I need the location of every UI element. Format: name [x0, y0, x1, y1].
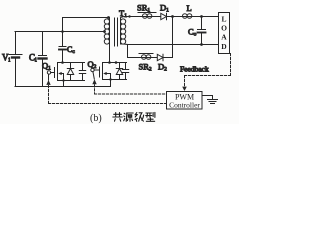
wire Cc top lead — [62, 32, 64, 47]
diode Q2 body diode — [116, 63, 122, 80]
capacitor Q1 parallel cap — [79, 63, 85, 81]
caption chinese 共源级型 — [113, 112, 155, 121]
node primary top junction — [107, 16, 110, 19]
node Q2 drain junction — [108, 61, 111, 64]
glyph xing — [146, 112, 155, 121]
wire top input rail — [15, 31, 104, 33]
wire secondary top lead — [121, 17, 138, 20]
PWM controller box U1 — [167, 92, 203, 110]
capacitor Cc — [59, 47, 66, 50]
node secondary top dot — [128, 15, 130, 17]
node output junction at Co — [200, 15, 203, 18]
wire Q2 drain rail — [103, 62, 127, 64]
arrow Q1 gate drive — [46, 80, 50, 85]
wire dashed Q1 gate drive vertical — [48, 86, 50, 104]
transformer T1 primary winding — [104, 18, 109, 45]
wire D1 to node A — [167, 16, 173, 18]
glyph ji — [135, 113, 144, 122]
wire primary bottom to Q2 drain — [109, 44, 111, 63]
arrow feedback into PWM — [182, 87, 187, 91]
ground — [208, 100, 218, 104]
wire dashed feedback into PWM — [184, 76, 186, 87]
node primary tap junction — [103, 30, 106, 33]
svg-text:Feedback: Feedback — [180, 65, 209, 74]
svg-text:(b): (b) — [90, 113, 102, 124]
wire Q1 gate lead down — [48, 74, 50, 80]
inductor L — [183, 14, 192, 19]
svg-text:L: L — [187, 3, 192, 13]
wire Ci bottom lead — [42, 60, 44, 87]
wire left vertical from battery to bottom rail — [15, 59, 17, 87]
node Q2 source junction — [109, 78, 111, 80]
node junction rail / Cc — [61, 30, 64, 33]
svg-text:L: L — [221, 15, 226, 24]
wire left vertical from rail to battery — [15, 32, 17, 54]
wire dashed feedback from load — [230, 54, 232, 76]
wire dashed Q2 gate drive horizontal to PWM — [95, 93, 167, 95]
label PWM Controller — [169, 93, 200, 110]
wire output ground rail — [128, 44, 219, 46]
wire Q2 gate lead down — [93, 72, 94, 79]
svg-text:O: O — [221, 24, 227, 33]
capacitor Co — [198, 17, 206, 45]
wire secondary bottom tail — [121, 44, 128, 58]
label LOAD — [221, 15, 227, 52]
transformer T1 core — [115, 18, 118, 46]
wire Cc bottom lead to Q1 drain — [62, 50, 64, 63]
battery Vi — [9, 55, 22, 58]
glyph gong — [113, 113, 123, 122]
arrow Q2 gate drive — [92, 79, 96, 84]
node Q1 drain junction — [61, 61, 64, 64]
wire corner up from rail to primary top — [63, 18, 110, 32]
transistor Q1 — [47, 63, 63, 81]
wire dashed Q2 gate drive vertical — [94, 85, 96, 94]
diode Q1 body diode — [67, 63, 73, 81]
capacitor Q2 parallel cap — [122, 63, 128, 80]
node Co ground junction — [200, 43, 203, 46]
wire output top rail through L — [173, 16, 219, 18]
transformer T1 secondary winding — [121, 19, 126, 44]
transistor Q2 — [91, 63, 111, 80]
wire dashed feedback horizontal — [185, 75, 231, 77]
wire SR2 branch — [128, 57, 158, 59]
wire Q1 drain rail — [58, 62, 85, 64]
svg-text:Controller: Controller — [169, 101, 200, 110]
wire Q2 source rail — [103, 79, 127, 81]
svg-text:A: A — [221, 33, 227, 42]
wire Q1 body/source drop to bottom rail — [63, 74, 65, 87]
wire dashed Q1 gate drive horizontal to PWM — [49, 103, 167, 105]
node A junction — [171, 15, 174, 18]
glyph yuan — [124, 113, 134, 121]
wire PWM to ground — [202, 96, 213, 100]
wire node A vertical to D2 branch — [172, 17, 174, 58]
load box — [219, 13, 230, 54]
svg-text:D: D — [221, 42, 227, 51]
node Q2 drain second junction — [115, 61, 118, 64]
wire Q2 body/source drop to bottom rail — [110, 74, 112, 87]
wire bottom rail — [15, 86, 110, 88]
saturable reactor SR1 — [137, 13, 160, 19]
diode D1 — [161, 13, 167, 19]
node Q1 source junction — [62, 79, 64, 81]
diode D2 — [157, 54, 163, 60]
wire D2 to node A vertical — [163, 57, 173, 59]
capacitor Ci — [39, 56, 47, 59]
wire Q1 source rail — [58, 80, 85, 82]
saturable reactor SR2 — [139, 54, 153, 60]
wire Ci top lead — [42, 32, 44, 56]
